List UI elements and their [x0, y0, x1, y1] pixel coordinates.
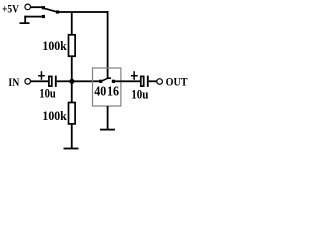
ground (switch idle throw)	[20, 22, 30, 24]
capacitor C2 10u negative plate	[147, 76, 149, 87]
wire from R1 bottom to junction and to R2	[71, 57, 73, 102]
U1 switch right contact	[112, 80, 115, 83]
svg-text:10u: 10u	[131, 87, 148, 101]
switch S1 lever	[44, 8, 57, 12]
U1 switch left contact	[99, 80, 102, 83]
power terminal +5V	[25, 4, 31, 10]
node input junction	[69, 79, 74, 84]
resistor R2 100k	[69, 103, 76, 124]
wire from rail down to R1	[71, 12, 73, 34]
C1 polarity +	[38, 75, 45, 77]
capacitor C2 10u positive plate	[141, 76, 144, 86]
analog switch IC U1 4016 box	[93, 68, 121, 106]
svg-text:40: 40	[94, 85, 106, 100]
capacitor C1 10u negative plate	[55, 76, 57, 87]
ground (below R2)	[64, 148, 79, 150]
switch S1 lower throw contact	[42, 15, 45, 18]
wire IN terminal to C1	[31, 80, 49, 82]
resistor R1 100k	[69, 35, 76, 56]
svg-text:10u: 10u	[39, 86, 56, 100]
wire from U1 right contact to C2	[113, 80, 140, 82]
switch S1 upper throw contact	[42, 6, 45, 9]
wire top rail horizontal	[58, 11, 109, 13]
C2 polarity +	[131, 75, 138, 77]
wire top rail vertical down to 4016 control	[107, 11, 109, 78]
svg-text:OUT: OUT	[166, 77, 188, 89]
wire down to ground	[24, 16, 26, 23]
wire C1 to junction and to 4016	[57, 80, 100, 82]
capacitor C1 10u positive plate	[49, 76, 52, 86]
U1 switch lever	[101, 78, 111, 81]
wire from R2 bottom to ground	[71, 125, 73, 149]
svg-text:100k: 100k	[42, 109, 66, 123]
wire 4016 bottom pin to ground	[107, 106, 109, 130]
ground (below 4016)	[100, 129, 115, 131]
svg-text:100k: 100k	[42, 39, 66, 53]
wire from +5V terminal to switch upper contact	[31, 6, 43, 8]
wire C2 to OUT terminal	[149, 80, 157, 82]
terminal IN	[25, 79, 31, 85]
terminal OUT	[157, 79, 163, 85]
svg-text:16: 16	[107, 85, 119, 100]
svg-text:IN: IN	[8, 77, 19, 89]
switch S1 pole contact	[56, 10, 59, 13]
wire from lower throw left	[24, 16, 42, 18]
svg-text:+5V: +5V	[2, 3, 20, 15]
